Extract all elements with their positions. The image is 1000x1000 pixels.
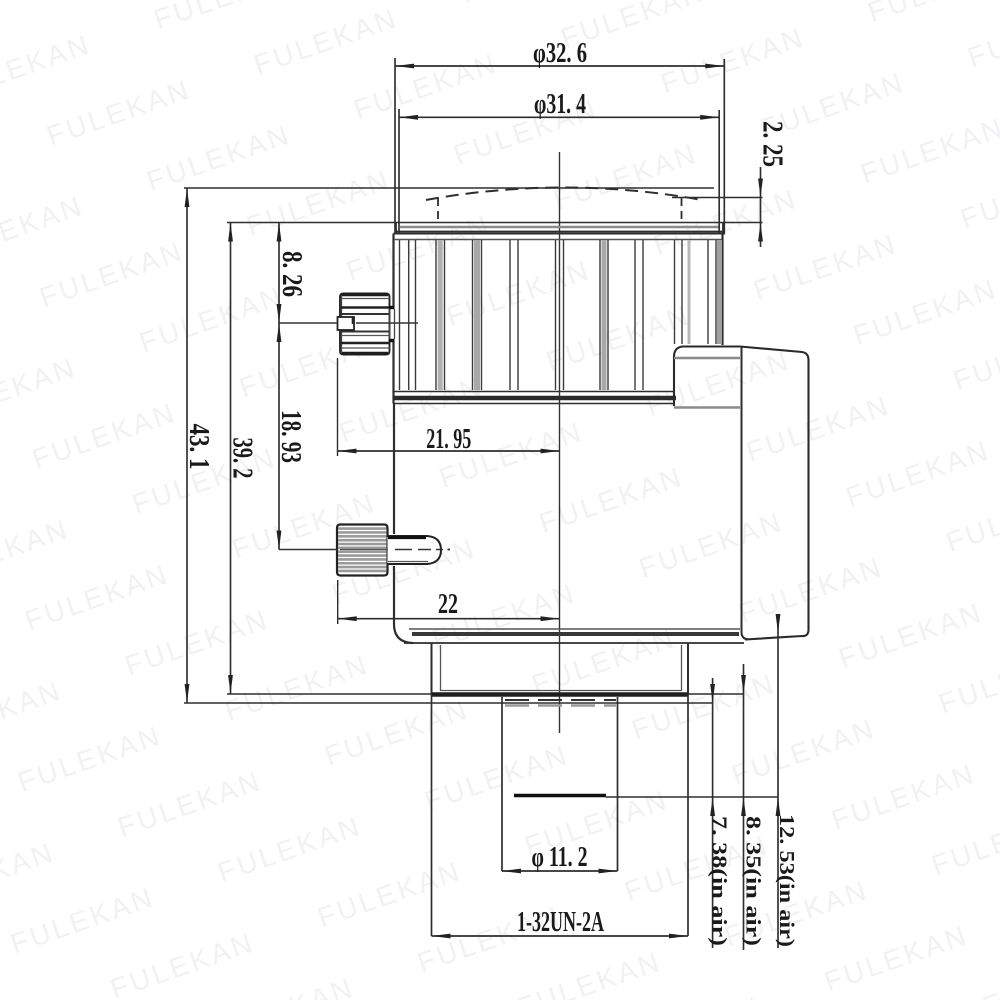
label 18.93 bbox=[275, 410, 307, 463]
label 43.1 bbox=[183, 424, 215, 470]
svg-text:21. 95: 21. 95 bbox=[426, 423, 471, 455]
main body cylinder bbox=[394, 404, 744, 644]
label 12.53 (in air) bbox=[775, 814, 799, 947]
dimension 43.1 overall height bbox=[185, 188, 190, 703]
thread relief hidden line (gray dashed) bbox=[505, 704, 616, 706]
thumbscrew upper (focus lock screw) bbox=[338, 294, 395, 355]
svg-text:φ31. 4: φ31. 4 bbox=[534, 88, 586, 120]
lower screw centerline (dash-dot) bbox=[279, 549, 450, 551]
label phi31.4 bbox=[534, 88, 586, 120]
dimension phi11.2 bbox=[502, 869, 618, 874]
label 22 bbox=[438, 588, 458, 620]
label 8.26 bbox=[276, 251, 308, 297]
svg-text:φ 11. 2: φ 11. 2 bbox=[532, 841, 588, 873]
svg-text:18. 93: 18. 93 bbox=[275, 410, 307, 463]
svg-text:1-32UN-2A: 1-32UN-2A bbox=[517, 906, 604, 938]
focus ring rib lines bbox=[400, 240, 717, 390]
dimension 1-32UN-2A thread bbox=[432, 934, 689, 939]
dimension phi32.6 top bbox=[395, 58, 724, 235]
threaded barrel 1-32UN-2A bbox=[432, 695, 689, 936]
focus ring rib shading bbox=[440, 240, 719, 390]
rear tube (phi 11.2 bore) bbox=[502, 697, 618, 871]
label phi11.2 bbox=[532, 841, 588, 873]
dimension 22 bbox=[338, 580, 560, 624]
label 1-32UN-2A bbox=[517, 906, 604, 938]
label phi32.6 bbox=[533, 37, 587, 69]
image plane thick mark bbox=[514, 794, 606, 797]
upper screw axis line bbox=[279, 322, 418, 324]
hidden glass edge right (dashed) bbox=[681, 198, 683, 223]
svg-text:8. 35(in air): 8. 35(in air) bbox=[742, 816, 766, 946]
svg-text:7. 38(in air): 7. 38(in air) bbox=[708, 816, 732, 946]
dimension 8.35 (in air) line bbox=[741, 664, 746, 950]
centerline vertical axis bbox=[559, 152, 561, 733]
dimension 8.26 / 18.93 shared line bbox=[277, 223, 282, 550]
label 8.35 (in air) bbox=[742, 816, 766, 946]
label 21.95 bbox=[426, 423, 471, 455]
label 2.25 bbox=[757, 121, 789, 167]
reference line cap top (39.2 / 2.25 lower ref) bbox=[227, 222, 763, 224]
hidden glass edge left (dashed) bbox=[437, 198, 439, 223]
mounting flange bbox=[432, 643, 689, 695]
reference line barrel shoulder (43.1 / 7.38 ref) bbox=[184, 702, 713, 704]
reference line flange bottom (39.2 / 8.35 ref) bbox=[227, 693, 744, 695]
dimension 21.95 bbox=[338, 358, 560, 456]
thumbscrew lower (zoom lock screw) with shaft bbox=[337, 525, 441, 576]
dimension 7.38 (in air) line bbox=[710, 678, 715, 948]
dimension 39.2 bbox=[228, 223, 233, 695]
focus ring (knurled ring) outline bbox=[394, 234, 723, 404]
dimension 2.25 (dome height) bbox=[758, 167, 763, 247]
dimension phi31.4 bbox=[399, 109, 719, 233]
label 39.2 bbox=[227, 438, 259, 479]
lens cap (top retaining ring) bbox=[396, 223, 723, 234]
label 7.38 (in air) bbox=[708, 816, 732, 946]
reference line rear face (in-air ref) bbox=[606, 796, 779, 798]
svg-text:43. 1: 43. 1 bbox=[183, 424, 215, 470]
reference line top of dome (43.1 ref) bbox=[184, 187, 714, 189]
svg-text:22: 22 bbox=[438, 588, 458, 620]
svg-text:39. 2: 39. 2 bbox=[227, 438, 259, 479]
connector block (right side housing) bbox=[674, 347, 809, 640]
dimension 12.53 (in air) line bbox=[776, 614, 781, 948]
reference line 2.25 upper bbox=[672, 197, 763, 199]
svg-text:12. 53(in air): 12. 53(in air) bbox=[775, 814, 799, 947]
thread relief hidden line (black dashed) bbox=[505, 699, 616, 701]
svg-text:2. 25: 2. 25 bbox=[757, 121, 789, 167]
svg-text:φ32. 6: φ32. 6 bbox=[533, 37, 587, 69]
dome hidden arc (lens surface, dashed) bbox=[426, 188, 702, 201]
svg-text:8. 26: 8. 26 bbox=[276, 251, 308, 297]
